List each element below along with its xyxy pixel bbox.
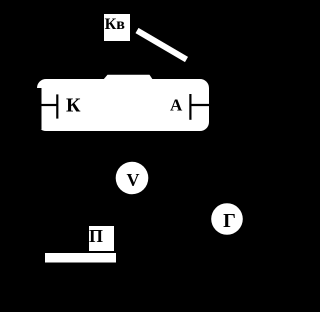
cathode K electrode	[41, 94, 81, 118]
svg-text:К: К	[66, 95, 81, 117]
voltmeter V	[116, 162, 149, 195]
quartz lamp box Кв	[104, 14, 130, 41]
potentiometer resistive bar	[45, 253, 116, 263]
svg-text:Кв: Кв	[105, 16, 126, 33]
svg-text:П: П	[89, 226, 103, 246]
cathode K plate on left wall	[30, 88, 42, 129]
galvanometer Г	[211, 203, 243, 235]
svg-text:А: А	[170, 96, 183, 115]
potentiometer slider box П	[89, 226, 114, 251]
photocell tube body	[37, 75, 209, 131]
svg-text:Г: Г	[223, 210, 236, 232]
svg-text:V: V	[127, 170, 140, 190]
light beam	[137, 31, 187, 60]
anode A electrode	[170, 94, 209, 120]
